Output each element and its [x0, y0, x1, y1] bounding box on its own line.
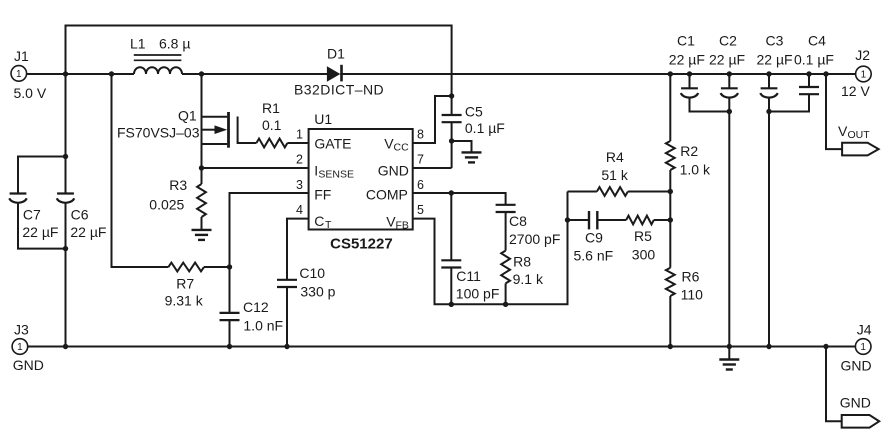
svg-text:100 pF: 100 pF [456, 286, 500, 302]
svg-text:1.0 k: 1.0 k [680, 162, 711, 178]
svg-text:12 V: 12 V [841, 83, 870, 99]
U1 right labels [366, 136, 409, 232]
diode D1 [294, 46, 384, 98]
svg-text:110: 110 [681, 286, 704, 302]
svg-text:5: 5 [417, 203, 424, 217]
capacitor C11 [441, 193, 499, 304]
svg-text:22 µF: 22 µF [669, 52, 705, 68]
node COMP-C11 [449, 190, 454, 195]
svg-text:R1: R1 [262, 100, 280, 116]
node rail-C1 [687, 71, 692, 76]
pin number 2 [296, 153, 303, 167]
svg-text:GND: GND [13, 357, 44, 373]
svg-text:2: 2 [296, 153, 303, 167]
node rail-R2 [668, 71, 673, 76]
svg-text:C1: C1 [677, 33, 695, 49]
svg-text:COMP: COMP [366, 187, 408, 203]
pin number 5 [417, 203, 424, 217]
pin number 6 [417, 178, 424, 192]
svg-text:CC: CC [394, 142, 410, 154]
svg-text:C9: C9 [585, 230, 603, 246]
node VFB-C11 [449, 302, 454, 307]
wire input rail [26, 73, 134, 75]
svg-text:1: 1 [860, 342, 866, 353]
node gnd-C3 [766, 344, 771, 349]
pin number 3 [296, 178, 303, 192]
capacitor C8 [496, 205, 561, 251]
svg-text:1.0 nF: 1.0 nF [243, 318, 283, 334]
node VOUT [823, 71, 828, 76]
wire GND pin7 [413, 167, 452, 169]
wire R7 feed [112, 74, 169, 267]
svg-text:22 µF: 22 µF [22, 224, 58, 240]
svg-text:51 k: 51 k [601, 167, 628, 183]
svg-text:22 µF: 22 µF [70, 224, 106, 240]
resistor R4 [568, 149, 671, 196]
capacitor C1 [669, 33, 730, 112]
svg-text:GND: GND [840, 395, 871, 411]
wire FF branch [230, 193, 309, 267]
node 5V-B [109, 71, 114, 76]
svg-text:0.025: 0.025 [149, 196, 184, 212]
svg-text:1: 1 [296, 128, 303, 142]
connector J1 [11, 48, 47, 101]
resistor R6 [666, 268, 703, 347]
node 5V-A [63, 71, 68, 76]
svg-text:L1: L1 [130, 36, 146, 52]
node divider-R4 [668, 189, 673, 194]
svg-text:OUT: OUT [848, 129, 871, 141]
svg-text:2700 pF: 2700 pF [509, 231, 560, 247]
resistor R7 [165, 263, 204, 309]
wire output rail [340, 73, 855, 75]
svg-text:0.1 µF: 0.1 µF [465, 120, 505, 136]
node gnd-C6 [63, 344, 68, 349]
svg-text:U1: U1 [314, 111, 332, 127]
svg-text:5.0 V: 5.0 V [14, 85, 47, 101]
svg-text:C11: C11 [456, 268, 481, 284]
capacitor C6 [57, 74, 107, 347]
svg-text:22 µF: 22 µF [709, 52, 745, 68]
wire gate lead [238, 141, 257, 143]
capacitor C7 [9, 157, 65, 249]
svg-text:Q1: Q1 [178, 108, 197, 124]
inductor L1 [130, 36, 190, 75]
svg-text:R3: R3 [169, 177, 187, 193]
wire ground rail [28, 346, 856, 348]
svg-text:T: T [325, 219, 332, 231]
node divider-R5 [668, 217, 673, 222]
connector J4 [841, 322, 872, 374]
ground R3 [192, 230, 212, 240]
resistor R2 [666, 74, 711, 268]
svg-text:R5: R5 [634, 228, 652, 244]
wire GND branch [826, 347, 842, 422]
svg-text:C: C [314, 213, 324, 229]
node gnd-C12 [227, 344, 232, 349]
svg-text:R7: R7 [176, 276, 194, 292]
node rail-C2 [727, 71, 732, 76]
node gnd-C10 [284, 344, 289, 349]
resistor R5 [626, 216, 670, 263]
svg-text:J2: J2 [855, 47, 870, 63]
node gnd-J4 [823, 344, 828, 349]
svg-text:6.8 µ: 6.8 µ [159, 36, 190, 52]
svg-text:GND: GND [378, 163, 409, 179]
node C9-left [565, 217, 570, 222]
wire L1 to D1 [182, 73, 327, 75]
node FF-R7-C12 [227, 264, 232, 269]
svg-text:C4: C4 [808, 33, 826, 49]
svg-text:3: 3 [296, 178, 303, 192]
ground rail symbol [719, 347, 739, 370]
capacitor C2 [709, 33, 745, 347]
node C1-C2 join [727, 109, 732, 114]
svg-text:R8: R8 [513, 254, 531, 270]
svg-text:C7: C7 [23, 206, 41, 222]
svg-text:8: 8 [417, 128, 424, 142]
svg-text:0.1: 0.1 [262, 117, 282, 133]
svg-text:330 p: 330 p [300, 284, 335, 300]
svg-text:C5: C5 [465, 104, 483, 120]
svg-text:9.1 k: 9.1 k [513, 271, 544, 287]
wire VFB branch [413, 192, 568, 305]
node rail-C3 [766, 71, 771, 76]
node gnd-C2 [727, 344, 732, 349]
svg-text:1: 1 [861, 70, 867, 81]
svg-text:FB: FB [396, 219, 409, 231]
svg-text:GATE: GATE [314, 136, 351, 152]
resistor R3 [149, 168, 206, 230]
svg-text:R4: R4 [606, 149, 624, 165]
wire ISENSE to pin2 [202, 167, 309, 169]
connector J3 [12, 322, 44, 374]
capacitor C9 [568, 211, 627, 263]
node gnd-R6 [668, 344, 673, 349]
svg-text:C6: C6 [71, 206, 89, 222]
wire R1 to pin1 [287, 142, 308, 144]
svg-text:C8: C8 [509, 213, 527, 229]
node C7-bottom [63, 246, 68, 251]
svg-text:CS51227: CS51227 [330, 236, 393, 253]
svg-text:7: 7 [417, 153, 424, 167]
svg-text:6: 6 [417, 178, 424, 192]
node SW [199, 71, 204, 76]
node VFB-R8 [503, 302, 508, 307]
svg-text:R2: R2 [680, 143, 698, 159]
svg-text:FS70VSJ–03: FS70VSJ–03 [117, 125, 200, 141]
svg-text:300: 300 [632, 247, 656, 263]
svg-text:V: V [838, 123, 848, 139]
wire R7 to node [204, 266, 230, 268]
resistor R1 [256, 100, 287, 147]
op-amp U1 box [309, 111, 413, 230]
pointer GND [840, 395, 879, 428]
capacitor C4 [769, 33, 834, 112]
svg-text:GND: GND [841, 358, 872, 374]
svg-text:SENSE: SENSE [318, 169, 354, 181]
svg-text:J3: J3 [14, 322, 29, 338]
capacitor C12 [220, 267, 284, 347]
svg-text:9.31 k: 9.31 k [165, 292, 204, 308]
svg-text:C3: C3 [766, 33, 784, 49]
wire top VCC feed [66, 26, 452, 116]
wire CT branch [287, 219, 309, 280]
resistor R8 [501, 251, 544, 305]
svg-text:C10: C10 [299, 265, 325, 281]
svg-text:D1: D1 [327, 46, 345, 62]
svg-text:J4: J4 [857, 322, 872, 338]
ground pin7 [452, 141, 482, 162]
U1 left labels [314, 136, 354, 231]
svg-text:B32DICT–ND: B32DICT–ND [294, 82, 384, 98]
pointer VOUT [838, 123, 879, 155]
pin number 4 [296, 203, 303, 217]
pin number 7 [417, 153, 424, 167]
U1 part number [330, 236, 393, 253]
svg-text:22 µF: 22 µF [757, 52, 793, 68]
svg-text:C12: C12 [243, 299, 269, 315]
svg-text:FF: FF [314, 187, 331, 203]
wire VCC pin8 [413, 96, 452, 143]
node rail-C4 [806, 71, 811, 76]
wire VOUT branch [826, 74, 842, 149]
capacitor C5 [442, 104, 505, 169]
node VCC [449, 93, 454, 98]
svg-text:1: 1 [17, 342, 23, 353]
capacitor C10 [277, 265, 336, 347]
connector J2 [841, 47, 871, 99]
capacitor C3 [757, 33, 793, 347]
node GND-C5 [449, 138, 454, 143]
svg-text:J1: J1 [14, 48, 29, 64]
svg-text:5.6 nF: 5.6 nF [574, 247, 614, 263]
node C7-top [63, 154, 68, 159]
transistor Q1 [117, 74, 238, 168]
pin number 1 [296, 128, 303, 142]
svg-text:C2: C2 [719, 33, 737, 49]
svg-text:0.1 µF: 0.1 µF [794, 52, 834, 68]
svg-text:R6: R6 [682, 269, 700, 285]
wire COMP branch [413, 193, 506, 205]
node C3-C4 join [766, 109, 771, 114]
pin number 8 [417, 128, 424, 142]
svg-text:4: 4 [296, 203, 303, 217]
node ISENSE [199, 165, 204, 170]
svg-text:1: 1 [16, 69, 22, 80]
